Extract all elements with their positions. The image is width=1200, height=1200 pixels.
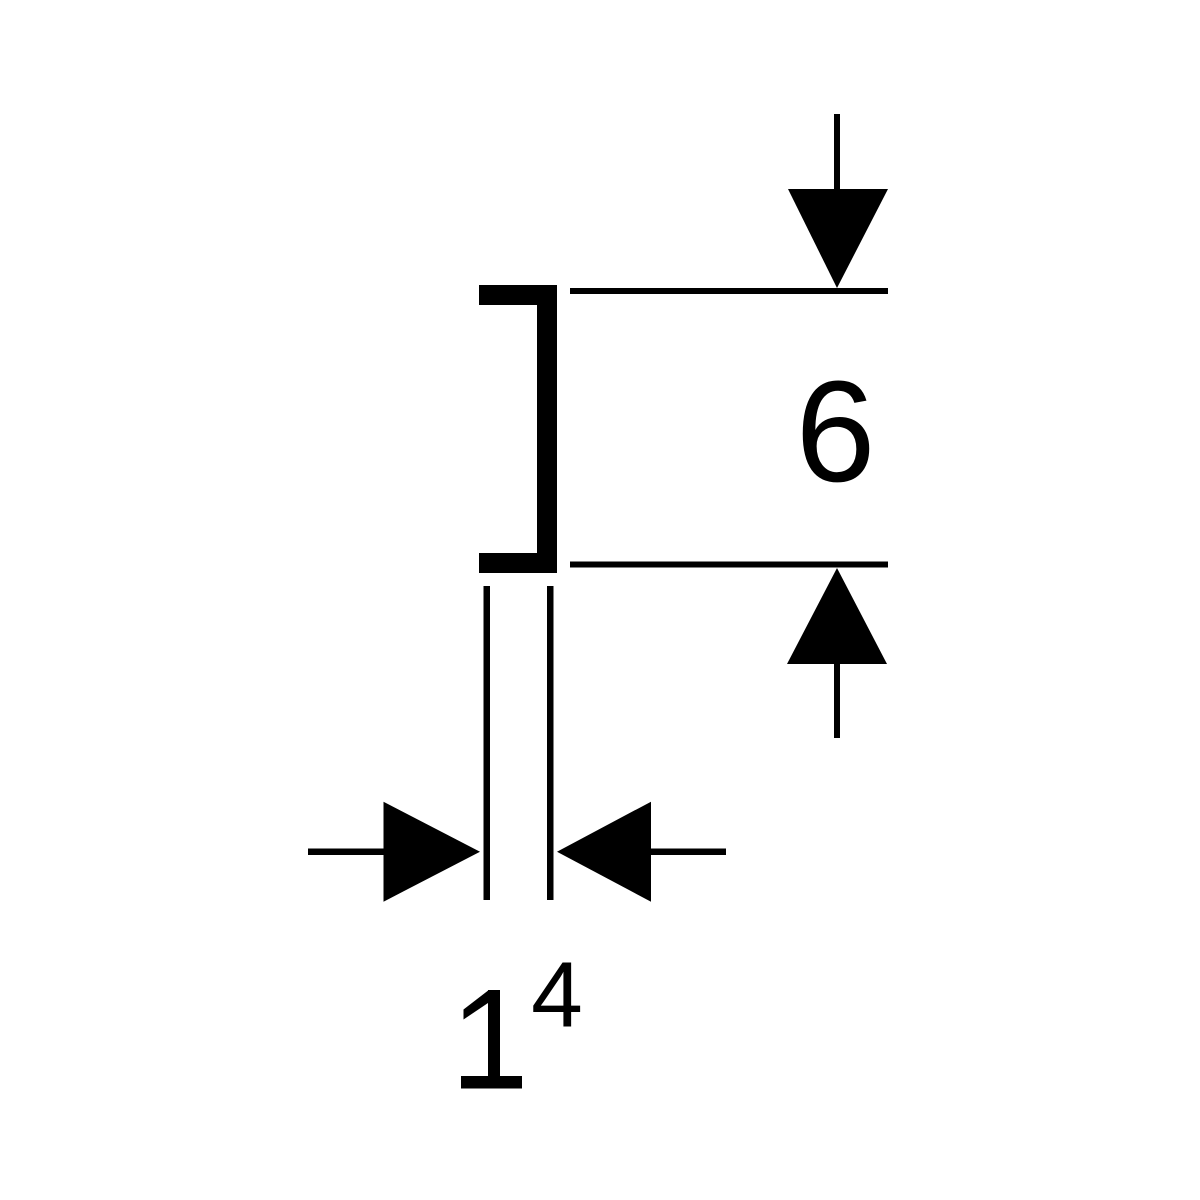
thin profile line right — [547, 586, 554, 900]
bottom dimension line (6) — [570, 562, 888, 568]
right width arrow (points left) — [557, 802, 726, 902]
down arrow (top dimension arrow) — [788, 114, 888, 288]
left width arrow (points right) — [308, 802, 480, 902]
svg-text:4: 4 — [531, 943, 583, 1047]
svg-text:6: 6 — [795, 351, 875, 512]
thin profile line left — [484, 586, 491, 900]
up arrow (bottom dimension arrow of 6) — [787, 568, 887, 738]
label 1 (custom footed glyph) — [461, 990, 522, 1089]
profile bracket — [479, 295, 547, 563]
top dimension line — [570, 288, 888, 294]
